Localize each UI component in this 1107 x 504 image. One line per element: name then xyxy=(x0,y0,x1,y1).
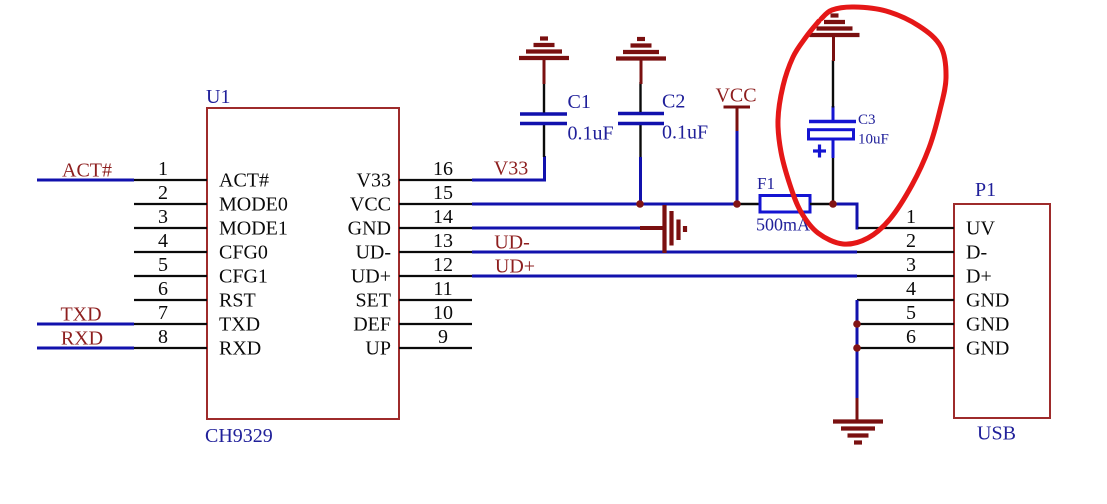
P1 pin name UV xyxy=(966,218,995,240)
wire C3 top lead blue xyxy=(832,106,835,120)
svg-text:5: 5 xyxy=(906,302,916,324)
svg-text:UP: UP xyxy=(365,338,391,360)
U1 pin number 5 xyxy=(158,254,168,276)
U1 pin 8 line xyxy=(134,347,207,349)
svg-text:8: 8 xyxy=(158,326,168,348)
svg-text:C1: C1 xyxy=(568,91,591,113)
svg-text:VCC: VCC xyxy=(715,85,756,107)
power symbol lead above C3 xyxy=(832,34,835,61)
junction dot C2/VCC bus xyxy=(636,200,644,208)
svg-text:10uF: 10uF xyxy=(858,132,889,148)
wire C2 lower lead blue xyxy=(639,157,642,204)
net label V33 xyxy=(494,158,528,180)
wire VCC bus xyxy=(472,203,737,206)
ground symbol right-facing xyxy=(665,205,686,253)
net label RXD xyxy=(61,328,103,350)
U1 pin name UD+ xyxy=(351,266,391,288)
U1 pin 3 line xyxy=(134,227,207,229)
net label UD+ xyxy=(495,256,535,278)
P1 pin 5 line xyxy=(857,323,954,325)
P1 pin 3 line xyxy=(857,275,954,277)
wire C3 lower lead black xyxy=(832,157,834,204)
refdes label U1 xyxy=(206,86,230,108)
U1 pin name DEF xyxy=(353,314,391,336)
U1 pin name GND xyxy=(348,218,391,240)
svg-text:0.1uF: 0.1uF xyxy=(568,123,614,145)
capacitor C1 xyxy=(520,114,567,124)
U1 pin number 9 xyxy=(438,326,448,348)
svg-text:CFG1: CFG1 xyxy=(219,266,268,288)
svg-text:3: 3 xyxy=(906,254,916,276)
op-amp chip body U1 xyxy=(207,108,399,419)
U1 pin number 11 xyxy=(433,278,452,300)
svg-text:RXD: RXD xyxy=(219,338,261,360)
svg-text:15: 15 xyxy=(433,182,453,204)
U1 pin 1 line xyxy=(134,179,207,181)
label C3 xyxy=(858,112,876,128)
junction dot P1 pin5 xyxy=(853,320,861,328)
U1 pin number 1 xyxy=(158,158,168,180)
P1 pin number 5 xyxy=(906,302,916,324)
wire net TXD xyxy=(37,323,134,326)
wire C1 lower lead xyxy=(543,124,545,157)
U1 pin name ACT# xyxy=(219,170,269,192)
wire elbow horizontal xyxy=(833,203,859,206)
U1 pin number 6 xyxy=(158,278,168,300)
svg-text:16: 16 xyxy=(433,158,453,180)
svg-text:UD-: UD- xyxy=(494,232,530,254)
svg-text:UV: UV xyxy=(966,218,995,240)
wire C2 upper lead xyxy=(639,82,641,112)
P1 pin number 4 xyxy=(906,278,916,300)
wire V33 horizontal xyxy=(472,179,546,182)
net label TXD xyxy=(60,304,101,326)
svg-text:UD-: UD- xyxy=(355,242,391,264)
svg-text:GND: GND xyxy=(966,314,1009,336)
wire net RXD xyxy=(37,347,134,350)
fuse F1 xyxy=(760,196,810,213)
wire elbow vertical xyxy=(856,203,859,230)
svg-text:6: 6 xyxy=(906,326,916,348)
svg-text:TXD: TXD xyxy=(60,304,101,326)
P1 pin number 3 xyxy=(906,254,916,276)
P1 pin name D+ xyxy=(966,266,992,288)
svg-text:TXD: TXD xyxy=(219,314,260,336)
U1 pin 13 line xyxy=(399,251,472,253)
U1 pin name MODE1 xyxy=(219,218,288,240)
U1 pin name RXD xyxy=(219,338,261,360)
U1 pin number 16 xyxy=(433,158,453,180)
U1 pin 15 line xyxy=(399,203,472,205)
U1 pin number 8 xyxy=(158,326,168,348)
svg-text:MODE1: MODE1 xyxy=(219,218,288,240)
P1 pin 1 line xyxy=(858,227,954,229)
net label ACT# xyxy=(62,160,112,182)
capacitor C3 bottom plate xyxy=(809,130,854,139)
U1 pin 5 line xyxy=(134,275,207,277)
U1 pin 2 line xyxy=(134,203,207,205)
capacitor C2 xyxy=(618,114,664,124)
svg-text:C3: C3 xyxy=(858,112,876,128)
ground symbol bottom xyxy=(833,422,883,443)
VCC symbol lead xyxy=(736,107,739,131)
U1 pin number 14 xyxy=(433,206,453,228)
junction dot VCC/bus xyxy=(733,200,741,208)
wire GND pin14 blue xyxy=(472,227,641,230)
wire net ACT# xyxy=(37,179,134,182)
svg-text:10: 10 xyxy=(433,302,453,324)
label C1 xyxy=(568,91,591,113)
svg-text:RXD: RXD xyxy=(61,328,103,350)
power symbol above C1 xyxy=(519,39,569,59)
svg-text:GND: GND xyxy=(348,218,391,240)
svg-text:C2: C2 xyxy=(662,91,685,113)
U1 pin number 4 xyxy=(158,230,168,252)
P1 pin 2 line xyxy=(857,251,954,253)
U1 pin 11 line xyxy=(399,299,472,301)
U1 pin 10 line xyxy=(399,323,472,325)
wire V33 vertical riser xyxy=(543,156,546,182)
svg-text:DEF: DEF xyxy=(353,314,391,336)
svg-text:13: 13 xyxy=(433,230,453,252)
svg-text:CH9329: CH9329 xyxy=(205,425,273,447)
net label VCC xyxy=(715,85,756,107)
svg-text:1: 1 xyxy=(906,206,916,228)
U1 pin number 7 xyxy=(158,302,168,324)
U1 pin number 3 xyxy=(158,206,168,228)
svg-text:MODE0: MODE0 xyxy=(219,194,288,216)
svg-text:CFG0: CFG0 xyxy=(219,242,268,264)
svg-text:D+: D+ xyxy=(966,266,992,288)
label C2 xyxy=(662,91,685,113)
annotation red circle around C3 xyxy=(778,7,946,244)
U1 pin name MODE0 xyxy=(219,194,288,216)
svg-text:D-: D- xyxy=(966,242,987,264)
U1 pin 12 line xyxy=(399,275,472,277)
capacitor C3 plus sign xyxy=(813,145,826,158)
svg-text:V33: V33 xyxy=(494,158,528,180)
svg-text:ACT#: ACT# xyxy=(219,170,269,192)
svg-text:3: 3 xyxy=(158,206,168,228)
P1 pin 4 line xyxy=(857,299,954,301)
svg-text:9: 9 xyxy=(438,326,448,348)
svg-text:SET: SET xyxy=(355,290,391,312)
svg-text:4: 4 xyxy=(906,278,916,300)
wire GND bus vertical xyxy=(856,300,859,399)
wire fuse to junction xyxy=(810,203,834,205)
P1 pin 6 line xyxy=(857,347,954,349)
svg-text:1: 1 xyxy=(158,158,168,180)
U1 pin 7 line xyxy=(134,323,207,325)
U1 pin number 12 xyxy=(433,254,453,276)
junction dot P1 pin6 xyxy=(853,344,861,352)
P1 pin name GND xyxy=(966,338,1009,360)
svg-text:2: 2 xyxy=(158,182,168,204)
U1 pin 6 line xyxy=(134,299,207,301)
U1 pin name UD- xyxy=(355,242,391,264)
svg-text:U1: U1 xyxy=(206,86,230,108)
wire C1 upper lead xyxy=(543,83,545,113)
U1 pin name TXD xyxy=(219,314,260,336)
power symbol above C3 xyxy=(810,16,860,36)
power symbol above C2 xyxy=(616,39,666,59)
U1 pin name CFG0 xyxy=(219,242,268,264)
U1 pin name RST xyxy=(219,290,256,312)
junction dot C3/fuse xyxy=(829,200,837,208)
svg-text:GND: GND xyxy=(966,290,1009,312)
P1 pin number 2 xyxy=(906,230,916,252)
svg-text:11: 11 xyxy=(433,278,452,300)
U1 pin 9 line xyxy=(399,347,472,349)
power symbol lead above C1 xyxy=(543,57,546,84)
U1 pin 16 line xyxy=(399,179,472,181)
refdes label P1 xyxy=(975,179,996,201)
svg-text:4: 4 xyxy=(158,230,168,252)
U1 pin number 13 xyxy=(433,230,453,252)
wire VCC drop xyxy=(736,131,739,204)
wire net UD+ xyxy=(472,275,857,278)
svg-text:USB: USB xyxy=(977,423,1016,445)
value label 0.1uF xyxy=(568,123,614,145)
value label 0.1uF (C2) xyxy=(662,122,708,144)
value label 10uF xyxy=(858,132,889,148)
svg-text:0.1uF: 0.1uF xyxy=(662,122,708,144)
capacitor C3 top plate xyxy=(809,120,856,123)
svg-text:V33: V33 xyxy=(357,170,391,192)
VCC symbol bar xyxy=(724,106,751,109)
P1 pin number 1 xyxy=(906,206,916,228)
part label USB xyxy=(977,423,1016,445)
svg-text:VCC: VCC xyxy=(350,194,391,216)
part number label CH9329 xyxy=(205,425,273,447)
U1 pin name CFG1 xyxy=(219,266,268,288)
wire C2 lower lead black xyxy=(639,124,641,157)
connector body P1 xyxy=(954,204,1050,418)
svg-text:5: 5 xyxy=(158,254,168,276)
P1 pin number 6 xyxy=(906,326,916,348)
U1 pin name SET xyxy=(355,290,391,312)
svg-text:12: 12 xyxy=(433,254,453,276)
U1 pin number 10 xyxy=(433,302,453,324)
svg-text:14: 14 xyxy=(433,206,453,228)
svg-text:UD+: UD+ xyxy=(351,266,391,288)
U1 pin 4 line xyxy=(134,251,207,253)
P1 pin name GND xyxy=(966,314,1009,336)
svg-text:ACT#: ACT# xyxy=(62,160,112,182)
label F1 xyxy=(757,174,775,193)
wire bus to fuse xyxy=(737,203,760,205)
wire C3 lower lead blue xyxy=(832,139,835,158)
svg-text:6: 6 xyxy=(158,278,168,300)
value label 500mA xyxy=(756,215,810,235)
wire net UD- xyxy=(472,251,857,254)
P1 pin name GND xyxy=(966,290,1009,312)
svg-text:RST: RST xyxy=(219,290,256,312)
net label UD- xyxy=(494,232,530,254)
wire C3 upper lead xyxy=(832,60,834,108)
svg-text:2: 2 xyxy=(906,230,916,252)
power symbol lead above C2 xyxy=(640,58,643,85)
ground lead pin14 xyxy=(640,226,664,230)
svg-text:P1: P1 xyxy=(975,179,996,201)
svg-text:GND: GND xyxy=(966,338,1009,360)
U1 pin 14 line xyxy=(399,227,472,229)
svg-text:F1: F1 xyxy=(757,174,775,193)
U1 pin name V33 xyxy=(357,170,391,192)
U1 pin name UP xyxy=(365,338,391,360)
U1 pin number 2 xyxy=(158,182,168,204)
P1 pin name D- xyxy=(966,242,987,264)
svg-text:UD+: UD+ xyxy=(495,256,535,278)
U1 pin name VCC xyxy=(350,194,391,216)
U1 pin number 15 xyxy=(433,182,453,204)
svg-text:7: 7 xyxy=(158,302,168,324)
ground lead bottom xyxy=(856,398,859,421)
